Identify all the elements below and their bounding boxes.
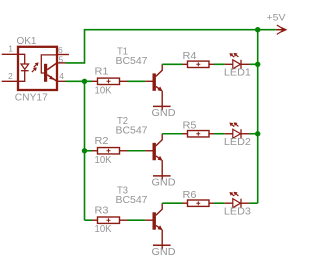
ground symbol bar (153, 244, 171, 246)
svg-text:6: 6 (58, 45, 63, 55)
LED3 emission arrow left (231, 194, 234, 196)
OK1 phototransistor collector lead to pin 5 (47, 63, 57, 70)
resistor R1 origin cross (107, 79, 111, 83)
pin 2 stub (2, 80, 18, 82)
LED2 cathode bar (240, 129, 242, 138)
svg-text:1: 1 (8, 44, 13, 54)
svg-text:R3: R3 (95, 205, 109, 216)
resistor R2 origin cross (107, 149, 111, 153)
OK1 light arrow upper (34, 64, 37, 67)
wire T3 collector to R6 (162, 202, 182, 204)
wire R5 to LED2 (209, 133, 214, 135)
wire LED3 to supply bus (250, 202, 258, 204)
resistor R6 body (188, 200, 210, 206)
OK1 internal LED triangle (21, 64, 29, 69)
OK1 phototransistor base lead from pin 6 (41, 55, 57, 73)
ground symbol bar (153, 175, 171, 177)
svg-text:10K: 10K (95, 224, 112, 235)
svg-text:OK1: OK1 (17, 36, 37, 47)
wire bus corner to R3 (85, 219, 93, 221)
+5V supply arrow (276, 25, 285, 34)
OK1 phototransistor emitter lead to pin 4 (47, 75, 57, 82)
resistor R1 body (98, 78, 120, 84)
ground symbol bar (153, 105, 171, 107)
resistor R4 body (188, 61, 210, 67)
svg-text:10K: 10K (95, 155, 112, 166)
transistor T2 emitter lead (156, 156, 160, 159)
LED1 cathode lead (241, 63, 250, 65)
pin 4 stub (57, 80, 66, 82)
LED2 emission arrow right (236, 124, 239, 126)
resistor R5 body (188, 131, 210, 137)
junction R2 row (82, 148, 87, 153)
LED1 anode lead (225, 63, 233, 65)
resistor R3 origin cross (107, 218, 111, 222)
LED2 anode lead (225, 133, 233, 135)
OK1 internal LED cathode bar (21, 70, 29, 72)
OK1 light arrow lower (32, 69, 35, 72)
OK1 phototransistor base bar (44, 64, 47, 82)
svg-text:2: 2 (8, 71, 13, 81)
right vertical supply bus (257, 30, 259, 204)
LED3 emission arrow right (236, 194, 239, 196)
wire R6 to LED3 (209, 202, 214, 204)
pin 6 stub (57, 54, 69, 56)
svg-text:4: 4 (59, 71, 64, 81)
transistor T3 base bar (153, 212, 156, 229)
junction +5V rail corner (255, 27, 260, 32)
transistor T1 collector lead (156, 64, 162, 76)
transistor T3 emitter lead (156, 225, 160, 228)
wire R3 to T3 base (120, 219, 128, 221)
LED3 cathode lead (241, 202, 250, 204)
wire pin 5 to +5V rail (66, 30, 276, 63)
wire LED1 to supply bus (250, 63, 258, 65)
resistor R4 origin cross (196, 62, 200, 66)
wire into R2 (92, 150, 98, 152)
wire bus to R2 (85, 150, 93, 152)
transistor T2 collector lead (156, 134, 162, 146)
svg-text:BC547: BC547 (116, 125, 148, 136)
svg-text:BC547: BC547 (116, 56, 148, 67)
svg-text:10K: 10K (95, 85, 112, 96)
LED3 anode lead (225, 202, 233, 204)
wire LED2 to supply bus (250, 133, 258, 135)
LED3 cathode bar (240, 199, 242, 208)
wire R1 to T1 base (120, 80, 128, 82)
svg-text:LED2: LED2 (224, 137, 251, 148)
OK1 internal LED anode lead (18, 54, 25, 64)
svg-text:LED3: LED3 (224, 207, 251, 218)
OK1 phototransistor emitter arrowhead (49, 76, 54, 80)
OK1 internal LED cathode lead (18, 71, 25, 82)
svg-text:BC547: BC547 (116, 195, 148, 206)
svg-text:+5V: +5V (267, 12, 286, 22)
svg-text:R5: R5 (183, 120, 197, 131)
junction pin 4 / R1 row (82, 79, 87, 84)
wire T2 collector to R5 (162, 133, 182, 135)
resistor R6 origin cross (196, 201, 200, 205)
wire into R3 (92, 219, 98, 221)
transistor T2 emitter wire to ground (161, 160, 163, 179)
svg-text:R1: R1 (95, 67, 109, 78)
svg-text:CNY17: CNY17 (15, 92, 48, 103)
transistor T3 emitter arrowhead (158, 225, 163, 230)
junction LED1 row (255, 62, 260, 67)
transistor T1 emitter arrowhead (158, 86, 163, 91)
resistor R5 origin cross (196, 132, 200, 136)
transistor T2 emitter arrowhead (158, 156, 163, 161)
wire R4 to LED1 (209, 63, 214, 65)
transistor T1 base bar (153, 73, 156, 90)
LED1 emission arrow left (231, 55, 234, 57)
transistor T3 emitter wire to ground (161, 230, 163, 249)
LED3 triangle (233, 199, 241, 208)
svg-text:GND: GND (152, 247, 176, 258)
resistor R2 body (98, 148, 120, 154)
wire pin 4 to R1 (66, 80, 93, 82)
transistor T1 emitter lead (156, 87, 160, 90)
pin 1 stub (2, 53, 18, 55)
LED2 emission arrow left (231, 124, 234, 126)
LED2 cathode lead (241, 133, 250, 135)
svg-text:LED1: LED1 (224, 68, 251, 79)
svg-text:R2: R2 (95, 136, 109, 147)
resistor R3 body (98, 217, 120, 223)
wire into R1 (92, 80, 98, 82)
transistor T3 collector lead (156, 203, 162, 215)
LED1 triangle (233, 60, 241, 69)
svg-text:R4: R4 (183, 51, 197, 62)
transistor T2 base bar (153, 143, 156, 160)
optocoupler OK1 box (18, 47, 57, 90)
transistor T1 emitter wire to ground (161, 91, 163, 110)
LED1 emission arrow right (236, 55, 239, 57)
wire T1 collector to R4 (162, 63, 182, 65)
wire R2 to T2 base (120, 150, 128, 152)
svg-text:GND: GND (152, 177, 176, 188)
junction LED2 row (255, 131, 260, 136)
LED1 cathode bar (240, 60, 242, 69)
left vertical base bus from pin 4 (84, 81, 86, 220)
svg-text:GND: GND (152, 108, 176, 119)
LED2 triangle (233, 129, 241, 138)
svg-text:R6: R6 (183, 190, 197, 201)
pin 5 stub (57, 62, 66, 64)
